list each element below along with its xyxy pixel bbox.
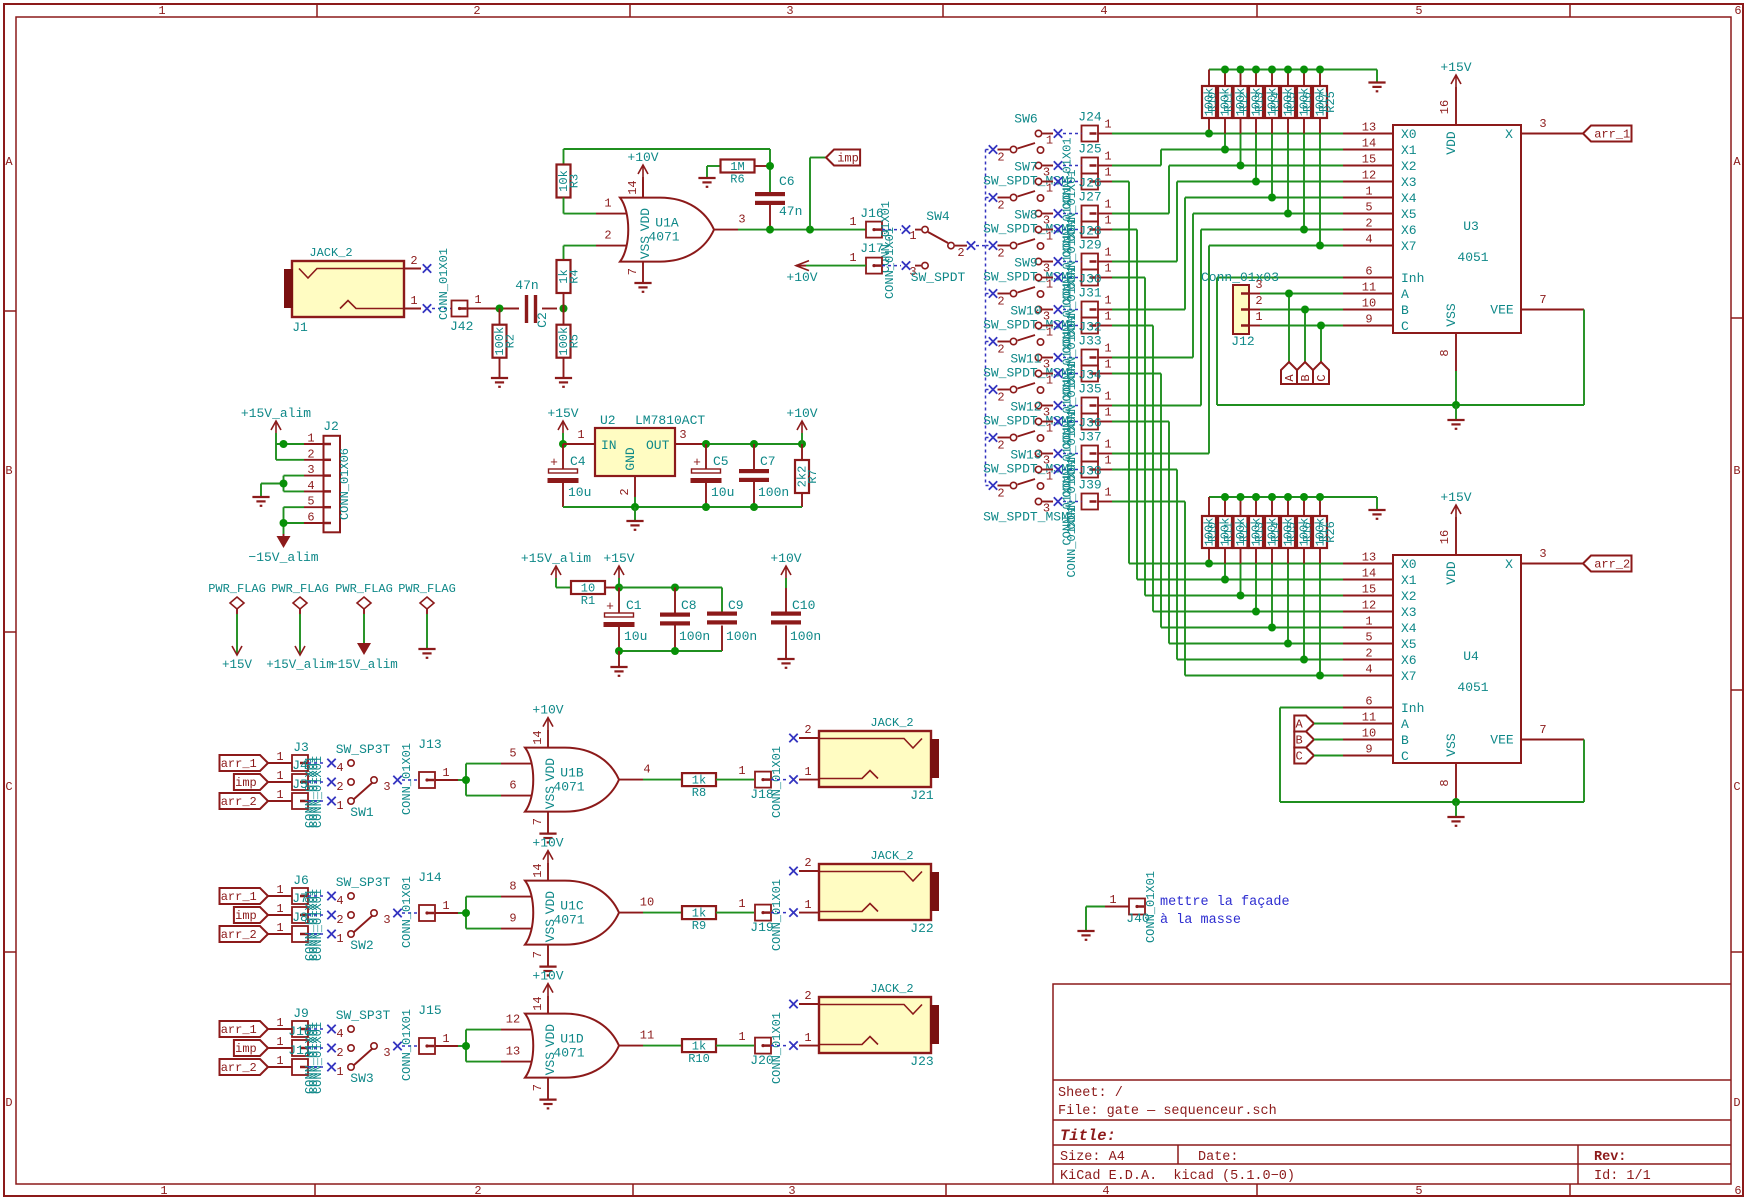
wire J32 to U4 X3 bbox=[1112, 326, 1343, 612]
switch SW4 SW_SPDT bbox=[909, 209, 965, 285]
svg-text:1: 1 bbox=[442, 766, 449, 780]
power -15V_alim J2 bbox=[248, 534, 318, 565]
svg-text:1: 1 bbox=[276, 788, 283, 802]
svg-text:SW10: SW10 bbox=[1010, 304, 1041, 319]
svg-text:4: 4 bbox=[336, 1027, 343, 1041]
svg-text:3: 3 bbox=[738, 213, 745, 227]
wire J15 to U1D bbox=[458, 1030, 501, 1062]
svg-text:7: 7 bbox=[1539, 723, 1546, 737]
svg-text:SW1: SW1 bbox=[350, 805, 374, 820]
no-connect x SW11 pin1 bbox=[1054, 369, 1062, 377]
svg-text:+15V: +15V bbox=[222, 658, 253, 672]
resistor 100k #5 of R26 bbox=[1265, 497, 1283, 628]
svg-text:J14: J14 bbox=[418, 870, 442, 885]
svg-text:C: C bbox=[1296, 750, 1303, 764]
switch SW11 SW_SPDT_MSM bbox=[983, 352, 1069, 429]
svg-text:imp: imp bbox=[235, 776, 257, 790]
svg-text:16: 16 bbox=[1438, 100, 1452, 114]
hierarchical label A U3 bbox=[1281, 362, 1297, 384]
svg-text:5: 5 bbox=[307, 495, 314, 509]
svg-text:J12: J12 bbox=[1231, 334, 1254, 349]
bus entry dashed J1-J42 bbox=[432, 308, 451, 310]
svg-text:1: 1 bbox=[160, 1184, 167, 1198]
svg-text:C2: C2 bbox=[535, 312, 550, 328]
connector J21 JACK_2 bbox=[799, 716, 939, 803]
svg-text:J15: J15 bbox=[418, 1003, 441, 1018]
wire J14 to U1C bbox=[458, 897, 501, 929]
svg-text:1: 1 bbox=[1104, 214, 1111, 228]
svg-text:J9: J9 bbox=[293, 1006, 309, 1021]
svg-text:4071: 4071 bbox=[553, 780, 584, 795]
connector J23 JACK_2 bbox=[799, 982, 939, 1069]
resistor R4 1k bbox=[557, 246, 582, 309]
svg-text:VDD: VDD bbox=[1444, 561, 1459, 585]
svg-text:J25: J25 bbox=[1078, 142, 1101, 157]
wire J35 to U3 X6 bbox=[1112, 230, 1343, 406]
svg-text:C4: C4 bbox=[570, 454, 586, 469]
svg-text:PWR_FLAG: PWR_FLAG bbox=[335, 582, 393, 596]
svg-text:SW_SPDT_MSM: SW_SPDT_MSM bbox=[983, 270, 1069, 285]
svg-text:imp: imp bbox=[235, 1042, 257, 1056]
svg-text:1: 1 bbox=[849, 215, 856, 229]
wire U1B output bbox=[643, 779, 681, 781]
svg-text:1: 1 bbox=[276, 1016, 283, 1030]
hierarchical label imp bbox=[826, 150, 860, 166]
wire J26 to U4 X0 bbox=[1112, 182, 1343, 564]
hierarchical label imp row2 bbox=[234, 907, 268, 923]
svg-text:Sheet: /: Sheet: / bbox=[1058, 1086, 1123, 1101]
no-connect x SW2 inputs bbox=[327, 892, 335, 938]
wire bottom rail C1-C9 bbox=[619, 650, 722, 652]
svg-text:1: 1 bbox=[804, 898, 811, 912]
svg-text:1: 1 bbox=[738, 1030, 745, 1044]
svg-text:11: 11 bbox=[1362, 281, 1376, 295]
svg-text:5: 5 bbox=[1415, 4, 1422, 18]
svg-text:C: C bbox=[5, 780, 12, 794]
junction J2 pin6 bbox=[280, 519, 288, 527]
resistor 100k #6 of R25 bbox=[1281, 70, 1299, 214]
hierarchical label imp row1 bbox=[234, 774, 268, 790]
svg-text:X3: X3 bbox=[1401, 175, 1417, 190]
svg-text:CONN_01X01: CONN_01X01 bbox=[770, 746, 784, 818]
power +15V C1 bbox=[603, 551, 634, 588]
switch SW8 SW_SPDT_MSM bbox=[983, 208, 1069, 285]
wire +15V to U2 IN bbox=[563, 428, 595, 444]
svg-text:47n: 47n bbox=[779, 204, 802, 219]
no-connect x jack J23 pin2 bbox=[789, 1000, 797, 1008]
svg-text:VDD: VDD bbox=[638, 208, 653, 232]
svg-text:16: 16 bbox=[1438, 530, 1452, 544]
svg-text:14: 14 bbox=[626, 180, 640, 194]
no-connect x J1 pin1 bbox=[423, 304, 431, 312]
svg-text:1: 1 bbox=[1365, 185, 1372, 199]
svg-text:JACK_2: JACK_2 bbox=[870, 849, 913, 863]
power +10V U1A bbox=[627, 150, 658, 198]
svg-text:J34: J34 bbox=[1078, 368, 1102, 383]
svg-text:1: 1 bbox=[738, 764, 745, 778]
svg-text:1: 1 bbox=[1104, 310, 1111, 324]
wire U1D output bbox=[643, 1045, 681, 1047]
svg-text:R1: R1 bbox=[581, 594, 595, 608]
svg-text:PWR_FLAG: PWR_FLAG bbox=[208, 582, 266, 596]
svg-text:1: 1 bbox=[604, 197, 611, 211]
connector J25 bbox=[1063, 142, 1112, 174]
bus entry dashed SW1-J13 bbox=[402, 779, 418, 781]
ground R5 bbox=[555, 378, 572, 387]
connector J29 bbox=[1063, 238, 1112, 270]
svg-text:1: 1 bbox=[158, 4, 165, 18]
junction C7 top bbox=[750, 440, 758, 448]
svg-text:SW12: SW12 bbox=[1010, 400, 1041, 415]
svg-text:+15V: +15V bbox=[1440, 60, 1471, 75]
ground R25 rail bbox=[1368, 83, 1385, 92]
svg-text:1: 1 bbox=[1255, 310, 1262, 324]
svg-text:1: 1 bbox=[1104, 294, 1111, 308]
resistor R8 1k bbox=[682, 773, 716, 800]
svg-text:D: D bbox=[5, 1096, 12, 1110]
svg-text:Id: 1/1: Id: 1/1 bbox=[1594, 1169, 1651, 1184]
svg-text:12: 12 bbox=[1362, 169, 1376, 183]
svg-text:SW_SP3T: SW_SP3T bbox=[336, 742, 391, 757]
svg-text:J23: J23 bbox=[910, 1054, 933, 1069]
svg-text:R6: R6 bbox=[730, 173, 744, 187]
resistor 100k #3 of R25 bbox=[1234, 70, 1252, 166]
junction node R4/R5 bbox=[560, 305, 568, 313]
svg-text:−15V_alim: −15V_alim bbox=[248, 550, 318, 565]
junction J13 bbox=[462, 776, 470, 784]
svg-text:6: 6 bbox=[1365, 265, 1372, 279]
svg-text:VDD: VDD bbox=[543, 891, 558, 915]
no-connect x SW12 pin1 bbox=[1054, 417, 1062, 425]
ground U1B bbox=[539, 834, 556, 843]
ground J2 bbox=[252, 497, 269, 506]
junction B bbox=[1301, 306, 1309, 314]
svg-text:SW6: SW6 bbox=[1014, 112, 1037, 127]
wire R4 to U1A pin2 bbox=[564, 245, 597, 247]
svg-text:2: 2 bbox=[473, 4, 480, 18]
svg-text:1: 1 bbox=[909, 229, 916, 243]
svg-text:1: 1 bbox=[849, 251, 856, 265]
svg-text:J6: J6 bbox=[293, 873, 309, 888]
svg-text:6: 6 bbox=[509, 779, 516, 793]
svg-text:10: 10 bbox=[640, 896, 654, 910]
svg-text:SW9: SW9 bbox=[1014, 256, 1037, 271]
svg-text:2: 2 bbox=[997, 247, 1004, 261]
wire top rail C1-C9 bbox=[619, 588, 722, 614]
svg-text:+15V_alim: +15V_alim bbox=[521, 551, 591, 566]
junction J14 bbox=[462, 909, 470, 917]
svg-text:C1: C1 bbox=[626, 598, 642, 613]
connector J34 bbox=[1063, 358, 1112, 383]
junction C6 top bbox=[766, 162, 774, 170]
svg-text:J37: J37 bbox=[1078, 430, 1101, 445]
svg-text:R9: R9 bbox=[692, 919, 706, 933]
svg-text:X7: X7 bbox=[1401, 239, 1417, 254]
connector J20 bbox=[750, 1012, 784, 1084]
connector J18 bbox=[750, 746, 784, 818]
wire J27 to U3 X2 bbox=[1112, 166, 1343, 214]
bus entries dashed J9-SW3 bbox=[308, 1029, 326, 1067]
wire R8 to J18 bbox=[716, 764, 754, 780]
svg-text:D: D bbox=[1733, 1096, 1740, 1110]
switch SW13 SW_SPDT_MSM bbox=[983, 448, 1069, 525]
svg-text:1: 1 bbox=[276, 769, 283, 783]
svg-text:1: 1 bbox=[276, 902, 283, 916]
no-connect x SW1 inputs bbox=[327, 759, 335, 805]
svg-text:+15V_alim: +15V_alim bbox=[241, 406, 311, 421]
wire J25 to U3 X1 bbox=[1112, 150, 1343, 166]
svg-text:CONN_01X01: CONN_01X01 bbox=[1144, 871, 1158, 943]
junction C5 top bbox=[702, 440, 710, 448]
svg-text:4: 4 bbox=[336, 761, 343, 775]
svg-text:4: 4 bbox=[1100, 4, 1107, 18]
svg-text:4071: 4071 bbox=[553, 913, 584, 928]
svg-text:2: 2 bbox=[410, 254, 417, 268]
svg-text:Title:: Title: bbox=[1060, 1127, 1116, 1145]
no-connect x SW10 pin3 bbox=[1054, 353, 1062, 361]
wire R3 feedback top bbox=[564, 149, 771, 193]
svg-text:2: 2 bbox=[997, 391, 1004, 405]
no-connect x SW8 pin1 bbox=[1054, 225, 1062, 233]
no-connect x J1 pin2 bbox=[423, 264, 431, 272]
svg-text:X2: X2 bbox=[1401, 159, 1417, 174]
junction J2 pin3-4 bbox=[280, 480, 288, 488]
wire J29 to U3 X3 bbox=[1112, 182, 1343, 262]
svg-text:100n: 100n bbox=[758, 485, 789, 500]
svg-text:CONN_01X01: CONN_01X01 bbox=[883, 227, 897, 299]
capacitor C10 100n bbox=[771, 598, 821, 658]
svg-text:1: 1 bbox=[804, 1031, 811, 1045]
connector J31 bbox=[1063, 286, 1112, 318]
wire J2 pins 3-4 to ground bbox=[261, 476, 304, 496]
junction C bbox=[1317, 322, 1325, 330]
op-amp gate U1B 4071 bbox=[501, 730, 651, 833]
svg-text:1: 1 bbox=[1104, 342, 1111, 356]
resistor 100k #8 of R25 bbox=[1313, 70, 1331, 246]
no-connect x SW3 common bbox=[393, 1042, 401, 1050]
svg-text:10: 10 bbox=[1362, 727, 1376, 741]
svg-text:J42: J42 bbox=[450, 319, 473, 334]
junction C1 bottom bbox=[615, 647, 623, 655]
svg-text:5: 5 bbox=[509, 747, 516, 761]
junction C8 top bbox=[671, 584, 679, 592]
connectors J3 J4 J5 bbox=[268, 740, 325, 828]
power +15V U3 bbox=[1440, 60, 1471, 87]
svg-text:J26: J26 bbox=[1078, 176, 1101, 191]
svg-text:+: + bbox=[693, 455, 701, 470]
capacitor C6 47n bbox=[755, 174, 802, 230]
ground U1A pin7 bbox=[634, 283, 651, 292]
svg-text:Rev:: Rev: bbox=[1594, 1150, 1626, 1165]
svg-text:CONN_01X01: CONN_01X01 bbox=[400, 876, 414, 948]
bus entry dashed SW2-J14 bbox=[402, 912, 418, 914]
junctions R26 rows bbox=[1205, 560, 1324, 680]
wire J2 pins 1-2 bbox=[276, 444, 304, 460]
svg-text:SW_SP3T: SW_SP3T bbox=[336, 1008, 391, 1023]
svg-text:J13: J13 bbox=[418, 737, 441, 752]
svg-text:4051: 4051 bbox=[1457, 680, 1488, 695]
svg-text:VDD: VDD bbox=[543, 758, 558, 782]
svg-text:3: 3 bbox=[788, 1184, 795, 1198]
svg-text:X7: X7 bbox=[1401, 669, 1417, 684]
bus entries dashed J6-SW2 bbox=[308, 896, 326, 934]
power +15V U2 bbox=[547, 406, 578, 444]
svg-text:7: 7 bbox=[531, 951, 545, 958]
svg-text:1: 1 bbox=[1104, 406, 1111, 420]
bus entries dashed J3-SW1 bbox=[308, 763, 326, 801]
power +10V C10 bbox=[770, 551, 801, 613]
svg-text:5: 5 bbox=[1415, 1184, 1422, 1198]
svg-text:Size: A4: Size: A4 bbox=[1060, 1150, 1125, 1165]
no-connect x jack J22 pin1 bbox=[789, 908, 797, 916]
svg-text:2: 2 bbox=[804, 723, 811, 737]
svg-text:+10V: +10V bbox=[532, 703, 563, 718]
title block text bbox=[1058, 1086, 1651, 1184]
wire R10 to J20 bbox=[716, 1030, 754, 1046]
bus entry dashed SW3-J15 bbox=[402, 1045, 418, 1047]
junction C8 bottom bbox=[671, 647, 679, 655]
svg-text:+10V: +10V bbox=[786, 406, 817, 421]
svg-text:12: 12 bbox=[1362, 599, 1376, 613]
svg-text:U1B: U1B bbox=[560, 766, 584, 781]
wire U1A output bbox=[738, 229, 866, 231]
svg-text:2: 2 bbox=[336, 1046, 343, 1060]
svg-text:A: A bbox=[1733, 155, 1741, 169]
no-connect x SW9 pin3 bbox=[1054, 305, 1062, 313]
svg-text:C5: C5 bbox=[713, 454, 729, 469]
svg-text:X: X bbox=[1505, 557, 1513, 572]
resistor R10 1k bbox=[682, 1039, 716, 1066]
switch SW1 SW_SP3T bbox=[336, 742, 391, 820]
svg-text:PWR_FLAG: PWR_FLAG bbox=[398, 582, 456, 596]
junction J2 pin1 bbox=[280, 440, 288, 448]
svg-text:2: 2 bbox=[618, 488, 632, 495]
svg-text:X0: X0 bbox=[1401, 127, 1417, 142]
power +10V U1C bbox=[532, 836, 563, 863]
svg-text:CONN_01X01: CONN_01X01 bbox=[400, 743, 414, 815]
svg-text:A: A bbox=[1296, 718, 1304, 732]
bus entry dashed J19-jack bbox=[771, 912, 788, 914]
ground J40 bbox=[1077, 931, 1094, 940]
svg-text:J28: J28 bbox=[1078, 224, 1101, 239]
svg-text:X4: X4 bbox=[1401, 191, 1417, 206]
wire U4 VEE loop bbox=[1280, 708, 1584, 803]
svg-text:2: 2 bbox=[997, 343, 1004, 357]
svg-text:B: B bbox=[1401, 733, 1409, 748]
resistor 100k #1 of R26 bbox=[1202, 497, 1220, 564]
svg-text:R8: R8 bbox=[692, 786, 706, 800]
no-connect x J16 bbox=[902, 225, 910, 233]
svg-text:8: 8 bbox=[1438, 779, 1452, 786]
no-connect x SW7 pin1 bbox=[1054, 177, 1062, 185]
resistor R3 10k bbox=[557, 149, 582, 214]
svg-text:8: 8 bbox=[1438, 349, 1452, 356]
svg-text:arr_2: arr_2 bbox=[221, 795, 257, 809]
resistor 100k #7 of R25 bbox=[1297, 70, 1315, 230]
svg-text:1: 1 bbox=[410, 294, 417, 308]
svg-text:SW13: SW13 bbox=[1010, 448, 1041, 463]
svg-text:SW_SPDT_MSM: SW_SPDT_MSM bbox=[983, 366, 1069, 381]
wire J33 to U3 X5 bbox=[1112, 214, 1343, 358]
svg-text:CONN_01X06: CONN_01X06 bbox=[338, 448, 352, 520]
ground C10 bbox=[777, 659, 794, 668]
ground U1C bbox=[539, 967, 556, 976]
ground U4 bbox=[1447, 802, 1464, 826]
svg-text:mettre la façade: mettre la façade bbox=[1160, 895, 1290, 910]
svg-text:1: 1 bbox=[474, 293, 481, 307]
svg-text:+10V: +10V bbox=[786, 270, 817, 285]
switch SW6 SW_SPDT_MSM bbox=[983, 112, 1069, 189]
junctions R25 rail bbox=[1221, 66, 1324, 74]
connector J40 bbox=[1086, 871, 1158, 943]
wire J24 to U3 X0 bbox=[1112, 133, 1343, 135]
svg-text:2: 2 bbox=[997, 439, 1004, 453]
svg-text:J24: J24 bbox=[1078, 110, 1102, 125]
svg-text:SW11: SW11 bbox=[1010, 352, 1041, 367]
svg-text:1: 1 bbox=[1046, 230, 1053, 244]
switch SW9 SW_SPDT_MSM bbox=[983, 256, 1069, 333]
junction A bbox=[1285, 290, 1293, 298]
note mettre la facade a la masse bbox=[1160, 895, 1290, 928]
svg-text:KiCad E.D.A. kicad (5.1.0−0): KiCad E.D.A. kicad (5.1.0−0) bbox=[1060, 1169, 1295, 1184]
switch SW3 SW_SP3T bbox=[336, 1008, 391, 1086]
svg-text:PWR_FLAG: PWR_FLAG bbox=[271, 582, 329, 596]
svg-text:C10: C10 bbox=[792, 598, 815, 613]
hierarchical label C U3 bbox=[1313, 362, 1329, 384]
hierarchical label C U4 bbox=[1294, 748, 1343, 764]
svg-text:SW8: SW8 bbox=[1014, 208, 1037, 223]
capacitor C8 100n bbox=[660, 588, 710, 652]
svg-text:U3: U3 bbox=[1463, 219, 1479, 234]
switch SW2 SW_SP3T bbox=[336, 875, 391, 953]
resistor 100k #2 of R25 bbox=[1218, 70, 1236, 150]
svg-text:9: 9 bbox=[509, 912, 516, 926]
no-connect x jack J21 pin1 bbox=[789, 775, 797, 783]
svg-text:100n: 100n bbox=[726, 629, 757, 644]
svg-text:VSS: VSS bbox=[1444, 733, 1459, 757]
svg-text:VDD: VDD bbox=[1444, 131, 1459, 155]
connector J16 bbox=[849, 201, 893, 273]
op-amp gate U1A 4071 bbox=[596, 180, 746, 283]
svg-text:1: 1 bbox=[1046, 470, 1053, 484]
svg-text:1: 1 bbox=[1109, 893, 1116, 907]
svg-text:J27: J27 bbox=[1078, 190, 1101, 205]
svg-text:J22: J22 bbox=[910, 921, 933, 936]
svg-text:J33: J33 bbox=[1078, 334, 1101, 349]
junction C7 bottom bbox=[750, 503, 758, 511]
svg-text:J32: J32 bbox=[1078, 320, 1101, 335]
no-connect x SW6 pin3 bbox=[1054, 161, 1062, 169]
title block bbox=[1053, 984, 1731, 1184]
svg-text:7: 7 bbox=[1539, 293, 1546, 307]
svg-text:R3: R3 bbox=[568, 174, 582, 188]
resistor R2 100k bbox=[493, 309, 518, 378]
wire R9 to J19 bbox=[716, 897, 754, 913]
svg-text:4071: 4071 bbox=[553, 1046, 584, 1061]
svg-text:14: 14 bbox=[1362, 567, 1376, 581]
wire +10V feed J17 bbox=[786, 261, 866, 285]
svg-text:47n: 47n bbox=[515, 278, 538, 293]
no-connect x jack J22 pin2 bbox=[789, 867, 797, 875]
ground U2 bbox=[626, 507, 643, 530]
svg-text:2: 2 bbox=[997, 151, 1004, 165]
svg-text:1: 1 bbox=[1046, 134, 1053, 148]
svg-text:arr_1: arr_1 bbox=[1594, 128, 1630, 142]
no-connect x SW12 pin3 bbox=[1054, 449, 1062, 457]
wire J13 to U1B bbox=[458, 764, 501, 796]
capacitor C2 47n bbox=[515, 278, 557, 328]
ground R2 bbox=[491, 378, 508, 387]
